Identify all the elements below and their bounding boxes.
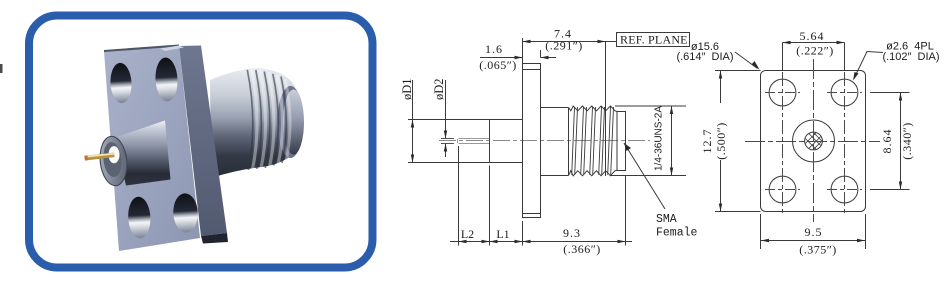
centerline side view [439, 140, 650, 142]
rear body behind flange [541, 108, 569, 176]
arrows phiD2 [444, 131, 447, 139]
hole column line right [844, 48, 846, 216]
svg-text:(.291″): (.291″) [545, 39, 583, 53]
dim 5.64 [783, 43, 845, 71]
dim 12.7 [715, 71, 761, 212]
3D pin recess white [109, 146, 120, 163]
svg-text:(.366″): (.366″) [563, 242, 601, 256]
rear step cylinder [617, 112, 626, 171]
arrows thread dim [670, 106, 673, 114]
hole front TR [831, 79, 858, 106]
svg-text:(.102″ DIA): (.102″ DIA) [882, 51, 939, 63]
svg-text:(.375″): (.375″) [799, 243, 837, 257]
vertical centerline [813, 59, 815, 222]
dim phiD2 line [445, 80, 447, 157]
text front view [676, 29, 939, 257]
blue rounded frame [29, 16, 373, 268]
centerlines front view [745, 48, 880, 222]
svg-text:L2: L2 [461, 227, 474, 241]
arrows L2 [459, 240, 467, 243]
center inner circle [805, 132, 823, 150]
3D flange plate shadow under side [201, 233, 228, 244]
arrows 7.4 [523, 40, 531, 43]
svg-text:9.3: 9.3 [563, 226, 581, 240]
svg-text:(.065″): (.065″) [479, 58, 517, 72]
hole front BR [831, 176, 858, 203]
arrows 5.64 [783, 41, 791, 44]
svg-text:Female: Female [656, 227, 698, 240]
hole column line left [782, 48, 784, 216]
svg-text:øD1: øD1 [400, 78, 414, 100]
dim phiD1 line [412, 80, 414, 163]
3D flange plate side face [179, 46, 227, 237]
arrows 8.64 [899, 93, 902, 101]
svg-text:(.500″): (.500″) [714, 122, 728, 160]
3D rear threaded body [210, 68, 304, 178]
svg-text:8.64: 8.64 [880, 129, 894, 154]
svg-text:(.614″ DIA): (.614″ DIA) [676, 51, 733, 63]
svg-text:1.6: 1.6 [485, 42, 503, 56]
3D front barrel body [115, 121, 171, 186]
bottom extension lines [459, 146, 626, 246]
arrows L1 [490, 240, 498, 243]
leader phi15.6 [735, 52, 758, 69]
text side view [400, 27, 698, 257]
dim 1.6 lines [480, 50, 556, 58]
SMA female leader [624, 143, 665, 209]
REF plane line [605, 42, 607, 177]
pin outline (light) [458, 139, 490, 144]
bottom dim line L2 L1 9.3 [450, 241, 632, 243]
3D front barrel face [97, 134, 130, 187]
arrowheads front view [719, 41, 902, 242]
3D hole bottom-right [172, 193, 199, 234]
svg-text:L1: L1 [496, 227, 509, 241]
REF PLANE box [617, 33, 690, 47]
3D plate top dark edge [104, 46, 179, 52]
arrow SMA leader [624, 143, 631, 151]
arrows 1.6 [515, 56, 523, 59]
svg-text:9.5: 9.5 [805, 225, 823, 239]
3D flange plate front face [104, 46, 200, 251]
center outer circle [793, 120, 835, 162]
3D plate top bright sliver [160, 46, 184, 52]
dimension graphics side view [413, 33, 690, 246]
3D hole bottom-left [127, 196, 151, 239]
hole front TL [769, 79, 796, 106]
flange side rectangle [523, 64, 541, 218]
svg-text:øD2: øD2 [432, 78, 446, 100]
hole front BL [769, 176, 796, 203]
thread bottom zigzag [569, 171, 618, 176]
dim 8.64 [870, 93, 910, 190]
svg-text:(.340″): (.340″) [900, 122, 914, 160]
arrows 12.7 [719, 71, 722, 79]
arrows phiD1 [411, 120, 414, 128]
svg-text:12.7: 12.7 [700, 129, 714, 154]
3D gold pin [84, 153, 114, 161]
thread top zigzag [569, 106, 618, 112]
arrow leader phi15.6 [752, 61, 760, 70]
svg-text:5.64: 5.64 [800, 29, 825, 43]
center pin hatch [797, 121, 827, 160]
hole row cross lines [765, 92, 862, 94]
thread dim extensions [611, 106, 686, 176]
REF PLANE leader [606, 41, 617, 43]
thread flank lines [572, 107, 614, 175]
flange corner witness lines [523, 70, 541, 214]
flange front outline [761, 71, 866, 212]
dimension graphics front view [715, 43, 910, 250]
crop mark fragment at left edge [0, 64, 3, 73]
leader phi2.6 [854, 52, 883, 79]
arrows 9.5 [761, 239, 769, 242]
arrowheads side view [411, 40, 673, 243]
dim 9.5 [761, 214, 866, 249]
dim 7.4 line and extension [523, 38, 606, 64]
svg-text:1/4-36UNS-2A: 1/4-36UNS-2A [654, 106, 665, 171]
horizontal centerline [745, 141, 880, 143]
pin edge extension ticks [441, 139, 454, 144]
3D hole top-left [109, 62, 132, 103]
svg-text:SMA: SMA [656, 213, 677, 226]
3D hole top-right [154, 57, 178, 102]
arrow leader phi2.6 [853, 72, 859, 81]
3D thread ribs [247, 70, 290, 171]
phiD1 extension lines [408, 120, 490, 163]
svg-text:REF. PLANE: REF. PLANE [620, 33, 688, 47]
barrel rectangle [490, 120, 523, 163]
arrows 9.3 [523, 240, 531, 243]
svg-text:(.222″): (.222″) [796, 44, 834, 58]
